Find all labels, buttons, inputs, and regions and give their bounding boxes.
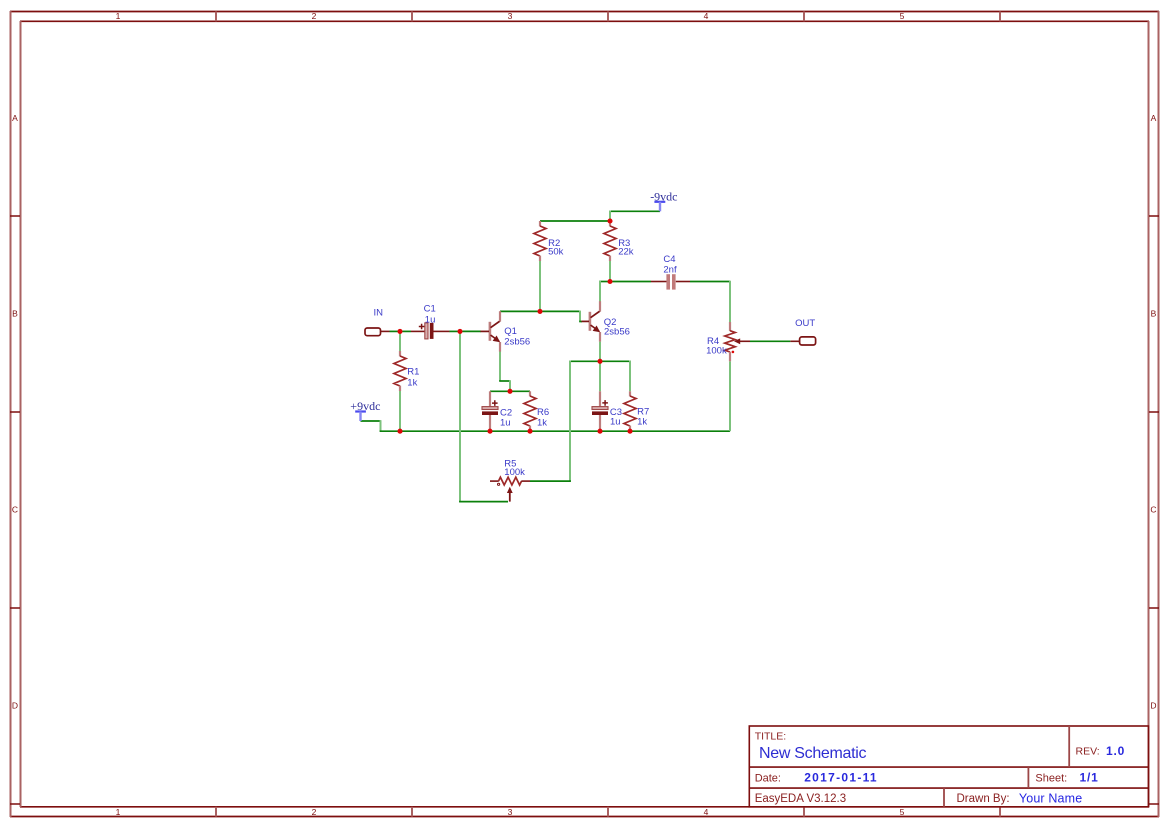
label R5 100k — [504, 459, 525, 478]
svg-text:4: 4 — [704, 11, 709, 21]
svg-text:REV:: REV: — [1076, 746, 1100, 758]
label C2 1u — [500, 407, 512, 428]
wire node F down to R5 right — [569, 361, 571, 482]
svg-text:B: B — [12, 309, 18, 319]
svg-text:C: C — [12, 505, 18, 515]
svg-text:1k: 1k — [407, 377, 417, 388]
resistor R2 — [534, 221, 546, 261]
transistor Q1 — [481, 311, 501, 351]
svg-text:5: 5 — [900, 807, 905, 817]
svg-text:1: 1 — [116, 11, 121, 21]
rail junction C3 — [597, 429, 602, 434]
wire node E to C4 left — [613, 281, 652, 283]
svg-text:2sb56: 2sb56 — [604, 326, 630, 337]
potentiometer R4 — [725, 322, 750, 361]
transistor Q2 — [582, 301, 601, 341]
label C4 2nf — [663, 254, 677, 276]
node B junction — [457, 329, 462, 334]
label OUT — [795, 318, 815, 329]
wire to R5 right pin — [530, 480, 571, 482]
svg-text:C1: C1 — [424, 303, 436, 314]
wire R2 top to node D — [540, 220, 608, 222]
svg-text:1u: 1u — [500, 418, 511, 429]
wire node IN to C1 left — [403, 330, 412, 332]
svg-text:100k: 100k — [706, 346, 727, 357]
wire R4 bottom to rail — [729, 361, 731, 431]
svg-text:Date:: Date: — [755, 773, 781, 785]
svg-text:50k: 50k — [548, 247, 564, 258]
label R2 50k — [548, 238, 564, 258]
svg-text:3: 3 — [508, 807, 513, 817]
wire node C to Q2 base — [543, 311, 583, 322]
wire node B to Q1 base — [463, 330, 482, 332]
capacitor C3 — [592, 391, 608, 431]
svg-text:TITLE:: TITLE: — [755, 731, 787, 743]
node D junction — [607, 218, 612, 223]
svg-text:OUT: OUT — [795, 318, 815, 329]
label Q2 2sb56 — [604, 317, 630, 338]
wire Q2 emitter to node F — [599, 342, 601, 360]
wire R3 bottom to node E — [609, 261, 611, 280]
svg-text:D: D — [1150, 701, 1156, 711]
power -9vdc — [650, 189, 677, 211]
label Q1 2sb56 — [504, 326, 530, 347]
svg-text:A: A — [12, 113, 18, 123]
svg-text:1k: 1k — [537, 417, 547, 428]
port IN — [365, 328, 390, 336]
capacitor C1 — [411, 323, 449, 339]
node E junction — [607, 279, 612, 284]
node C junction — [537, 309, 542, 314]
svg-text:1: 1 — [116, 807, 121, 817]
wire Q1 collector to node C — [500, 310, 538, 312]
resistor R3 — [604, 221, 616, 261]
wire node E to Q2 collector — [599, 281, 608, 302]
node G junction — [507, 389, 512, 394]
label C1 1u — [424, 303, 436, 325]
potentiometer R5 — [490, 477, 530, 501]
svg-text:D: D — [12, 701, 18, 711]
svg-text:4: 4 — [704, 807, 709, 817]
rail junction R7 — [627, 429, 632, 434]
node F junction — [597, 359, 602, 364]
wire R7 top — [629, 361, 631, 392]
label R3 22k — [618, 238, 634, 257]
svg-text:A: A — [1151, 113, 1157, 123]
svg-text:1u: 1u — [610, 416, 621, 427]
svg-text:22k: 22k — [618, 247, 634, 258]
resistor R6 — [524, 391, 536, 431]
wire R1 bottom to rail — [399, 391, 401, 430]
wire C1 right to node B — [449, 330, 458, 332]
svg-text:Sheet:: Sheet: — [1035, 773, 1067, 785]
svg-text:1.0: 1.0 — [1106, 744, 1125, 758]
svg-text:+9vdc: +9vdc — [350, 399, 380, 413]
wire C3 top — [599, 363, 601, 391]
svg-text:2sb56: 2sb56 — [504, 336, 530, 347]
title block — [749, 726, 1149, 807]
svg-text:Your Name: Your Name — [1019, 791, 1082, 805]
svg-text:IN: IN — [374, 308, 384, 319]
label R7 1k — [637, 406, 649, 427]
rail junction C2 — [487, 429, 492, 434]
wire +9vdc to rail — [361, 420, 399, 431]
label C3 1u — [610, 407, 622, 427]
svg-text:2017-01-11: 2017-01-11 — [804, 771, 878, 785]
wire to R5 wiper stem — [459, 501, 508, 503]
wire IN port to node IN — [390, 330, 399, 332]
svg-text:New Schematic: New Schematic — [759, 745, 867, 762]
svg-text:2: 2 — [312, 807, 317, 817]
svg-text:1u: 1u — [425, 314, 436, 325]
rail junction R1 — [397, 429, 402, 434]
wire node F horizontal — [570, 360, 630, 362]
label IN — [374, 308, 384, 319]
wire R2 bottom to node C — [539, 261, 541, 310]
power +9vdc — [350, 399, 380, 421]
resistor R1 — [394, 351, 406, 391]
resistor R7 — [624, 391, 636, 431]
label R1 1k — [407, 367, 419, 389]
svg-text:1/1: 1/1 — [1080, 771, 1099, 785]
node IN junction — [397, 329, 402, 334]
wire node B down to R5 wiper row — [459, 333, 461, 502]
svg-text:3: 3 — [508, 11, 513, 21]
wire C4 right to R4 top — [690, 281, 730, 323]
svg-text:100k: 100k — [504, 467, 525, 478]
svg-text:2nf: 2nf — [663, 264, 677, 275]
rail junction R6 — [527, 429, 532, 434]
capacitor C4 — [651, 274, 690, 289]
svg-text:R1: R1 — [407, 367, 419, 378]
label R6 1k — [537, 407, 549, 428]
wire -9vdc to node D — [610, 211, 660, 220]
port OUT — [750, 337, 816, 345]
svg-text:2: 2 — [312, 11, 317, 21]
svg-text:-9vdc: -9vdc — [650, 189, 677, 203]
svg-text:EasyEDA V3.12.3: EasyEDA V3.12.3 — [755, 793, 846, 805]
svg-text:5: 5 — [900, 11, 905, 21]
capacitor C2 — [482, 391, 498, 431]
svg-text:C: C — [1150, 505, 1156, 515]
svg-text:C4: C4 — [663, 254, 675, 265]
wire C2 R6 top — [490, 390, 530, 392]
svg-text:1k: 1k — [637, 416, 647, 427]
wire Q1 emitter to node G — [499, 351, 510, 389]
svg-text:Drawn By:: Drawn By: — [957, 793, 1010, 805]
wire bottom rail — [400, 430, 730, 432]
svg-text:B: B — [1151, 309, 1157, 319]
wire node IN to R1 top — [399, 333, 401, 352]
label R4 100k — [706, 336, 727, 356]
